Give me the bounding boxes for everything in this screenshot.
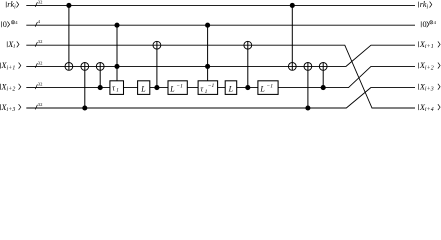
- gate L inverse (1): [168, 81, 187, 95]
- svg-text:L: L: [228, 84, 234, 93]
- control dot X_{i+2} (2): [154, 85, 159, 90]
- bundle slash /32: [35, 0, 43, 7]
- control dot ancilla (1): [114, 23, 119, 28]
- wire vertical: control X_{i+3} to target X_{i+1}: [84, 63, 86, 109]
- control dot rk_i (1): [66, 3, 71, 8]
- CNOT target X_{i+1} (3): [96, 63, 104, 71]
- label ket X_{i+3} left: [0, 103, 20, 113]
- CNOT target X_{i+1} (2): [81, 63, 89, 71]
- control dot X_{i+2} (4): [321, 85, 326, 90]
- bundle slash /32: [35, 102, 43, 110]
- control dot X_{i+2} (3): [245, 85, 250, 90]
- control dot rk_i (2): [290, 3, 295, 8]
- label ket rk_i left: [6, 0, 19, 10]
- svg-text:0: 0: [423, 20, 427, 29]
- CNOT target X_{i+1} (4): [288, 63, 296, 71]
- gate L (2): [225, 81, 237, 95]
- svg-text:1: 1: [205, 89, 208, 95]
- wire vertical: control X_{i+2} to target X_{i+1} (2nd): [322, 63, 324, 88]
- wire vertical: control X_{i+2} to target X_i: [156, 41, 158, 87]
- wire X_{i+3} rising to row 5: [26, 88, 415, 108]
- wire X_{i+1} rising to row 3: [26, 45, 415, 66]
- svg-text:1: 1: [116, 88, 119, 94]
- svg-text:L: L: [259, 84, 265, 93]
- control dot ancilla (2): [205, 23, 210, 28]
- wire vertical: control rk_i to target X_{i+1}: [68, 5, 70, 70]
- CNOT target X_i (1): [153, 41, 161, 49]
- label ket X_{i+2} right: [419, 61, 441, 71]
- gate tau1: [110, 81, 124, 95]
- wire vertical: control X_{i+2} to target X_{i+1}: [99, 63, 101, 88]
- label ket X_{i+1} left: [0, 61, 20, 71]
- wire vertical: control rk_i to target X_{i+1} (2nd): [291, 5, 293, 70]
- svg-text:0: 0: [3, 20, 7, 29]
- label ket rk_i right: [419, 0, 432, 10]
- svg-text:32: 32: [38, 102, 43, 107]
- svg-text:32: 32: [38, 39, 43, 44]
- wire X_{i+2} rising to row 4: [26, 66, 415, 87]
- svg-text:−1: −1: [208, 83, 215, 89]
- label ket X_{i+3} right: [419, 82, 441, 92]
- label ket X_{i+4} right: [419, 103, 441, 113]
- CNOT target X_{i+1} (5): [304, 63, 312, 71]
- wire vertical: controls to gate tau1 inverse: [207, 25, 209, 81]
- svg-text:L: L: [169, 84, 175, 93]
- label ket X_i left: [7, 40, 19, 50]
- CNOT target X_i (2): [244, 41, 252, 49]
- svg-text:−1: −1: [176, 83, 183, 89]
- bundle slash /32: [35, 82, 43, 90]
- wire rk_i: [26, 4, 415, 6]
- gate tau1 inverse: [198, 81, 218, 95]
- control dot X_{i+1} (1): [114, 64, 119, 69]
- control dot X_{i+2} (1): [98, 85, 103, 90]
- wire vertical: controls to gate tau1: [116, 25, 118, 81]
- control dot X_{i+1} (2): [205, 64, 210, 69]
- wire X_i with dive to bottom row: [26, 45, 415, 108]
- control dot X_{i+3} (1): [82, 105, 87, 110]
- wire vertical: control X_{i+2} to target X_i (2nd): [247, 41, 249, 87]
- label ket zero left: [2, 20, 19, 29]
- gate L (1): [138, 81, 150, 95]
- CNOT target X_{i+1} (1): [65, 63, 73, 71]
- bundle slash /32: [35, 39, 43, 47]
- bundle slash /32: [35, 60, 43, 68]
- svg-text:32: 32: [38, 60, 43, 65]
- gate L inverse (2): [258, 81, 278, 95]
- svg-text:32: 32: [38, 0, 43, 4]
- svg-text:−1: −1: [267, 83, 274, 89]
- svg-text:32: 32: [38, 82, 43, 87]
- wire vertical: control X_{i+3} to target X_{i+1} (2nd): [307, 63, 309, 109]
- wire ancilla zero: [26, 24, 415, 26]
- control dot X_{i+3} (2): [305, 105, 310, 110]
- label ket zero right: [421, 20, 436, 29]
- CNOT target X_{i+1} (6): [319, 63, 327, 71]
- label ket X_{i+2} left: [0, 82, 20, 92]
- label ket X_{i+1} right: [419, 40, 441, 50]
- svg-text:L: L: [140, 84, 146, 93]
- bundle slash /4: [35, 19, 41, 27]
